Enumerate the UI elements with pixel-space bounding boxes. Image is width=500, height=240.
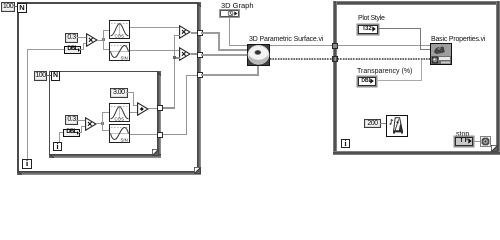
while loop frame right (496, 1, 500, 155)
N count terminal (outer) (17, 3, 27, 13)
svg-text:SIN: SIN (120, 137, 127, 142)
wire tunnel2 to VI y input (201, 54, 247, 56)
N count terminal (inner) (51, 71, 60, 81)
tunnel3 (outer loop z) (197, 72, 203, 78)
label Transparency (357, 68, 412, 75)
wire 100 to N (outer) (14, 6, 18, 7)
numeric constant 200 (364, 119, 381, 129)
inner for loop corner resize glyph (152, 149, 159, 156)
wire DBL left to i riser (outer) (27, 49, 64, 50)
multiply node y-row (outer right) (179, 47, 191, 61)
wire add out to tunnelA (148, 108, 157, 110)
wire Transparency to Basic Properties (376, 80, 422, 81)
inner for loop frame left (49, 71, 51, 158)
DBL terminal Transparency (358, 77, 376, 87)
inner for loop frame right (thick) (157, 71, 161, 158)
Cosine.vi (inner) (109, 103, 130, 122)
inner for loop frame bottom (thick) (49, 154, 162, 158)
add node (inner) (137, 102, 149, 116)
wire multiply out to junction (inner) (96, 123, 103, 124)
label 3D Parametric Surface.vi (249, 36, 323, 43)
wire to COS input (inner) (102, 112, 109, 113)
wire 3.00 to add node (126, 92, 134, 93)
Sine.vi (inner) (109, 124, 130, 143)
wire junction vertical (inner) (102, 112, 103, 131)
wire TF to condition terminal (473, 141, 480, 142)
inner loop top-right mitre (157, 71, 161, 76)
tunnel1 (outer loop x) (197, 30, 203, 36)
wire multiply2 out to tunnel2 (191, 53, 198, 55)
wire riser to i terminal (outer) (27, 49, 28, 159)
while loop frame bottom (333, 151, 500, 155)
wire tunnel3 to VI z input (201, 74, 258, 76)
inner for loop frame top (49, 71, 162, 73)
loop condition terminal (stop sign) (480, 136, 491, 147)
wire i to DBL (inner) (59, 132, 63, 133)
label Basic Properties.vi (431, 36, 485, 43)
outer for loop frame left (17, 2, 19, 174)
tunnel hatched (while left) (332, 56, 338, 62)
wire COS out to multiply1 (outer) (130, 27, 180, 28)
label Plot Style (358, 15, 385, 22)
wire 0.3 to multiply (inner) (76, 120, 85, 121)
wire 3D Graph refnum down (229, 17, 230, 46)
Cosine.vi (outer) (109, 20, 130, 39)
numeric constant 3.00 (110, 88, 128, 98)
iteration terminal i (outer) (22, 159, 32, 169)
svg-text:COS: COS (114, 34, 124, 39)
wire 200 to metronome (380, 123, 386, 124)
3D Parametric Surface.vi icon (torus) (247, 44, 270, 66)
wire SIN out to tunnelB (inner) (130, 134, 158, 136)
multiply node (inner) (85, 117, 97, 131)
numeric constant 0.3 (inner) (65, 115, 78, 125)
wire multiply out to junction (outer) (97, 40, 104, 41)
wire COS out to add node (inner) (130, 112, 138, 113)
Sine.vi (outer) (109, 42, 130, 61)
wire to COS input (outer) (103, 30, 109, 31)
wire junction vertical (outer) (103, 30, 104, 50)
junction dot (inner) (101, 122, 104, 125)
multiply node (outer) (86, 33, 98, 47)
iteration terminal i (while) (341, 139, 350, 148)
Basic Properties.vi icon (430, 43, 452, 65)
while loop frame top (333, 1, 500, 5)
wire tunnel1 to VI x input (201, 32, 219, 34)
junction dot (outer) (102, 38, 105, 41)
svg-text:COS: COS (114, 116, 124, 121)
wire 100 to N (inner) (45, 75, 51, 76)
DBL terminal (outer loop) (64, 46, 81, 54)
TF terminal stop (455, 137, 473, 146)
outer loop top-right mitre (197, 2, 201, 7)
outer for loop corner resize glyph (194, 167, 201, 174)
multiply node x-row (outer right) (179, 25, 191, 39)
I32 terminal Plot Style (358, 25, 378, 35)
wire 0.3 to multiply (outer) (77, 37, 86, 38)
3D Graph control terminal (219, 9, 240, 18)
wire to SIN input (outer) (103, 49, 109, 50)
outer loop bottom-left mitre (17, 171, 22, 175)
outer for loop frame right (thick) (197, 2, 202, 175)
wire tunnelB riser to tunnel3 (163, 134, 187, 136)
wire DBL right jog to multiply (inner) (79, 132, 82, 133)
outer for loop frame bottom (thick) (17, 171, 201, 175)
refnum wire VI to Basic Properties (270, 45, 430, 46)
label stop (456, 131, 469, 138)
inner loop bottom-left mitre (49, 154, 54, 158)
wire SIN out to multiply2 (outer) (130, 50, 180, 51)
outer for loop frame top (17, 2, 201, 4)
wire DBL right jog to multiply (outer) (80, 49, 84, 50)
while loop frame left (333, 1, 337, 155)
numeric constant 100 (outer) (1, 2, 15, 12)
tunnel refnum (while left) (332, 43, 338, 49)
numeric constant 100 (inner) (34, 71, 47, 81)
junction dot on riser (173, 56, 176, 59)
wire riser inner-tunnelA to multiplies (174, 35, 180, 37)
Wait Until Next ms Multiple (metronome) (386, 115, 408, 137)
tunnelA (inner loop) (157, 105, 163, 111)
tunnelB (inner loop) (157, 132, 163, 138)
label 3D Graph (221, 2, 254, 9)
wire multiply1 out to tunnel1 (191, 32, 198, 34)
tunnel2 (outer loop y) (197, 52, 203, 58)
wire to SIN input (inner) (102, 130, 109, 131)
numeric constant 0.3 (outer) (65, 33, 78, 43)
while loop corner resize glyph (491, 145, 498, 152)
wire Plot Style to Basic Properties (378, 28, 421, 29)
3D object hatched wire (270, 58, 430, 60)
svg-text:SIN: SIN (120, 56, 127, 61)
iteration terminal i (inner) (53, 142, 62, 151)
DBL terminal (inner loop) (63, 129, 80, 137)
